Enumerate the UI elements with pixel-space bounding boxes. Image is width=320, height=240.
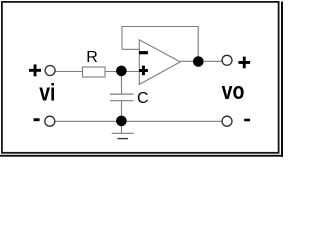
svg-text:vo: vo: [222, 78, 245, 105]
svg-text:C: C: [137, 90, 149, 107]
svg-text:R: R: [86, 49, 98, 66]
svg-text:vi: vi: [39, 80, 55, 107]
